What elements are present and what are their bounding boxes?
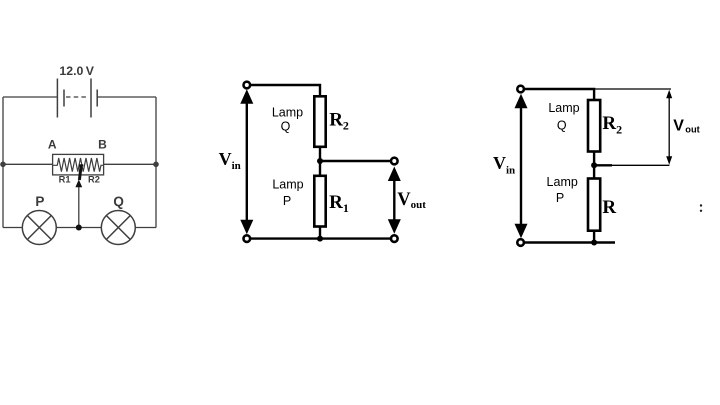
- wire junction thin extension: [612, 164, 669, 166]
- wire middle row left: [3, 163, 53, 165]
- svg-text:P: P: [283, 194, 291, 208]
- terminal top-left (right): [517, 86, 524, 93]
- Vin arrow (middle): [246, 97, 248, 227]
- battery B1 12.0V: [57, 79, 97, 118]
- svg-text:V: V: [673, 117, 684, 134]
- wire top-right (battery right): [97, 96, 156, 98]
- wire bottom: [524, 241, 615, 243]
- resistor R2 (right): [588, 100, 600, 152]
- resistor R1 (middle): [314, 176, 325, 227]
- svg-text:Q: Q: [113, 194, 124, 209]
- node: bottom junction dot: [76, 225, 82, 231]
- svg-text:R: R: [602, 197, 616, 218]
- svg-text:A: A: [48, 137, 57, 151]
- wire junction to Vout terminal: [320, 160, 391, 162]
- svg-text:P: P: [556, 191, 564, 205]
- node: right junction dot: [153, 162, 159, 168]
- svg-text:R2: R2: [602, 113, 622, 136]
- wiper arrowhead: [75, 180, 82, 188]
- node: junction (right): [591, 162, 597, 168]
- wiper wire: [78, 187, 80, 228]
- wire right vertical: [155, 97, 157, 228]
- battery dashed link: [66, 96, 89, 98]
- svg-text:Lamp: Lamp: [272, 106, 303, 120]
- node: bottom junction (right): [591, 240, 597, 246]
- svg-text:Lamp: Lamp: [547, 175, 578, 189]
- terminal mid-right: [391, 158, 398, 165]
- Vout measure arrow (right): [668, 92, 670, 163]
- battery cell 1 long plate: [56, 79, 58, 118]
- potentiometer zigzag element: [53, 158, 104, 172]
- svg-text:R1: R1: [59, 175, 71, 185]
- Vin arrow (right): [520, 100, 522, 230]
- Vout arrow (middle): [393, 172, 395, 228]
- terminal bottom-left: [244, 235, 251, 242]
- terminal top-left: [244, 82, 251, 89]
- wire junction stub right: [594, 164, 612, 166]
- svg-text:Q: Q: [281, 119, 291, 133]
- svg-text:Lamp: Lamp: [272, 178, 303, 192]
- svg-text:R2: R2: [329, 109, 349, 132]
- node: left junction dot: [0, 162, 6, 168]
- terminal bottom-left (right): [517, 239, 524, 246]
- svg-text:R1: R1: [329, 192, 349, 215]
- wiper contact (thick slanted): [79, 165, 81, 180]
- lamp P: [22, 211, 56, 245]
- resistor R (right): [588, 179, 600, 231]
- wire left vertical: [2, 97, 4, 228]
- svg-text:Vin: Vin: [493, 153, 515, 176]
- potentiometer box: [53, 154, 104, 175]
- svg-text:B: B: [98, 137, 107, 151]
- wire R2 to junction: [319, 147, 321, 177]
- stray colon mark: [700, 204, 702, 206]
- wire bottom right: [135, 227, 156, 229]
- wire top-left (battery left): [3, 96, 57, 98]
- svg-text:Vout: Vout: [397, 190, 426, 211]
- terminal bottom-right: [391, 235, 398, 242]
- resistor R2 (middle): [314, 96, 325, 147]
- wire bottom: [250, 237, 391, 239]
- svg-text:Vin: Vin: [219, 149, 241, 172]
- svg-text:Q: Q: [557, 118, 567, 132]
- svg-text:R2: R2: [88, 175, 100, 185]
- svg-text:P: P: [35, 194, 44, 209]
- wire top thin extension: [594, 88, 671, 90]
- wire middle row right: [103, 163, 156, 165]
- node: junction R2-R1: [317, 158, 323, 164]
- svg-text:Lamp: Lamp: [548, 101, 579, 115]
- wire R1 to bottom: [319, 227, 321, 239]
- wire top: [250, 85, 320, 97]
- node: bottom junction: [317, 236, 323, 242]
- battery cell 2 short plate: [96, 90, 98, 107]
- battery cell 2 long plate: [90, 79, 92, 118]
- wire bottom left: [3, 227, 22, 229]
- battery cell 1 short plate: [63, 90, 65, 107]
- svg-text:12.0 V: 12.0 V: [59, 64, 94, 78]
- wire R to bottom: [593, 230, 595, 243]
- lamp Q: [101, 211, 135, 245]
- svg-text:out: out: [685, 124, 699, 134]
- wire R2 to junction: [593, 151, 595, 179]
- wire bottom middle: [56, 227, 101, 229]
- wire top: [524, 89, 594, 100]
